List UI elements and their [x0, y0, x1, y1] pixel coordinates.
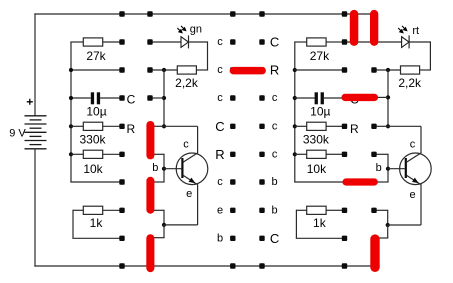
node label C mid-right row8 [270, 231, 279, 246]
pad top rail left-a [119, 11, 124, 16]
wire row5 pad to base corner [376, 154, 388, 169]
svg-text:R: R [270, 63, 279, 78]
wire base Q1 [164, 168, 181, 170]
label 10k right [307, 162, 327, 176]
pad row7 col-a left [119, 208, 124, 213]
label C left half [127, 93, 136, 107]
wire 27k-left to pad [103, 41, 120, 43]
svg-text:10µ: 10µ [310, 105, 330, 119]
pad row2 mid-a [230, 67, 235, 72]
pad row6 col-a left [119, 179, 124, 184]
svg-text:C: C [270, 231, 279, 246]
svg-text:c: c [217, 176, 223, 188]
svg-text:27k: 27k [310, 49, 330, 63]
label 1k right [313, 216, 327, 230]
wire 27k-right lead [294, 41, 307, 43]
pad bottom rail mid-a [230, 263, 235, 268]
label b Q2 [376, 162, 382, 174]
wire row1 under jumpers to LED rt [347, 41, 402, 43]
pad row5 mid-a [230, 152, 235, 157]
svg-text:b: b [272, 204, 278, 216]
svg-text:R: R [215, 147, 224, 162]
wire 1k to pad right [326, 209, 342, 211]
wire pad row3 to junction [152, 97, 164, 99]
wire bus to 330k right [295, 125, 307, 127]
label gn [190, 24, 202, 36]
label 27k right [310, 49, 330, 63]
wire row6 bar to base corner [150, 169, 164, 183]
resistor 2,2k left [177, 66, 196, 74]
svg-text:c: c [272, 120, 278, 132]
svg-text:b: b [376, 162, 382, 174]
label e Q2 [410, 189, 416, 201]
jumper red left B [146, 177, 154, 214]
label 330k left [79, 133, 106, 147]
svg-text:1k: 1k [90, 216, 104, 230]
resistor 2,2k right [401, 66, 420, 74]
pad row1 mid-a [230, 39, 235, 44]
pad bottom rail left-a [119, 263, 124, 268]
svg-text:c: c [183, 138, 189, 150]
node row3 junction left [162, 96, 166, 100]
wire pad to 2.2k junction [152, 69, 177, 71]
node label c mid-right row4 [272, 120, 278, 132]
wire LED gn to corner [189, 41, 208, 70]
svg-text:c: c [217, 92, 223, 104]
wire 10k to pad [326, 153, 342, 155]
resistor 10k right [307, 150, 326, 158]
svg-text:C: C [215, 119, 224, 134]
label 10u left [86, 105, 106, 119]
capacitor C2 10u plates [315, 92, 324, 104]
wire pad to LED gn [152, 41, 181, 43]
svg-text:330k: 330k [303, 133, 330, 147]
svg-text:c: c [217, 64, 223, 76]
wire 10k to pad [103, 153, 120, 155]
pad row6 mid-a [230, 179, 235, 184]
resistor 330k right [307, 122, 326, 130]
svg-text:e: e [410, 189, 416, 201]
node label b mid-right row7 [272, 204, 278, 216]
node bus row2 right [293, 68, 297, 72]
pad row4 col-a right [342, 124, 347, 129]
wire row7 pad to emitter corner [376, 210, 387, 225]
wire bus to 10k right [295, 153, 307, 155]
transistor Q1 base bar [181, 158, 183, 178]
svg-text:b: b [152, 162, 158, 174]
battery B1 9V cells [25, 116, 47, 149]
node label c mid-left row3 [217, 92, 223, 104]
node junction 2.2k left [162, 68, 166, 72]
node bus row2 left [69, 68, 73, 72]
resistor 1k left [83, 206, 102, 214]
svg-text:10k: 10k [83, 162, 103, 176]
pad row8 col-a left [119, 236, 124, 241]
node base junction Q2 [386, 167, 390, 171]
wire row2 right from bus [295, 69, 342, 71]
capacitor C1 10u plates [91, 92, 100, 104]
wire row8 corner to bar right [374, 225, 388, 238]
pad row4 mid-b [259, 124, 264, 129]
svg-text:b: b [217, 232, 223, 244]
wire bus to 10k [71, 153, 83, 155]
wire 2.2k right to corner [420, 69, 431, 71]
label c Q1 [183, 138, 189, 150]
node row4 junction left [162, 124, 166, 128]
node bus row5 left [69, 152, 73, 156]
jumper red right row6 [342, 178, 378, 185]
wire emitter Q2 run [388, 224, 421, 226]
svg-text:c: c [410, 138, 416, 150]
svg-text:10µ: 10µ [86, 105, 106, 119]
jumper red right bottom [370, 234, 379, 272]
svg-text:C: C [127, 93, 136, 107]
LED D2 cathode bar [408, 35, 410, 48]
svg-text:R: R [350, 122, 359, 136]
wire 27k-left lead [70, 41, 83, 43]
pad bottom rail right-a [342, 263, 347, 268]
label c Q2 [410, 138, 416, 150]
node bus row3 right [293, 96, 297, 100]
pad row4 mid-a [230, 124, 235, 129]
node label C mid-left row4 [215, 119, 224, 134]
wire right bus rail [294, 42, 296, 182]
pad row6 mid-b [259, 179, 264, 184]
label 2,2k left [175, 76, 199, 90]
wire row4 bar to junction [150, 125, 164, 127]
pad row7 col-a right [342, 208, 347, 213]
pad row8 mid-b [259, 236, 264, 241]
node emitter junction Q2 [386, 223, 390, 227]
svg-text:R: R [126, 122, 135, 136]
node label R mid-left row5 [215, 147, 224, 162]
label R left half [126, 122, 135, 136]
jumper red right row3 [341, 94, 378, 101]
jumper red left A [146, 121, 154, 159]
wire battery negative lead [34, 149, 36, 267]
jumper red left C [146, 234, 154, 272]
label R right half [350, 122, 359, 136]
transistor Q1 collector [183, 126, 198, 162]
pad row5 col-a right [342, 152, 347, 157]
pad row7 col-b right [371, 208, 376, 213]
node bus row3 left [69, 96, 73, 100]
pad row5 col-b right [371, 152, 376, 157]
label 330k right [303, 133, 330, 147]
wire 330k to pad [326, 125, 342, 127]
wire LED rt to corner [409, 41, 430, 70]
pad row8 col-a right [342, 236, 347, 241]
label b Q1 [152, 162, 158, 174]
pad row1 col-b left [147, 39, 152, 44]
svg-text:1k: 1k [313, 216, 327, 230]
transistor Q1 emitter [183, 175, 198, 225]
wire 0V bottom rail [34, 265, 379, 267]
pad row2 mid-b [259, 67, 264, 72]
pad row1 col-a left [119, 39, 124, 44]
pad row7 mid-b [259, 208, 264, 213]
pad row3 mid-a [230, 95, 235, 100]
resistor 27k left [83, 38, 102, 46]
node emitter junction Q1 [162, 223, 166, 227]
wire bus to C1 [71, 97, 91, 99]
wire emitter Q1 run [164, 224, 198, 226]
node row3 junction right [386, 95, 390, 99]
label 10u right [310, 105, 330, 119]
battery label 9 V [9, 128, 26, 140]
node bus row5 right [293, 152, 297, 156]
wire row4 pad to junction [376, 125, 388, 127]
svg-text:c: c [272, 148, 278, 160]
LED D1 green triangle [181, 37, 188, 48]
node junction 2.2k right [386, 68, 390, 72]
wire 1k left loop [72, 210, 119, 239]
LED D2 light arrows [398, 26, 407, 33]
node label c mid-left row2 [217, 64, 223, 76]
wire base Q2 [388, 168, 405, 170]
pad row4 col-a left [119, 124, 124, 129]
svg-text:gn: gn [190, 24, 202, 36]
pad row2 col-a right [342, 67, 347, 72]
node label e mid-left row7 [217, 204, 223, 216]
transistor Q2 base bar [405, 158, 407, 178]
svg-text:e: e [217, 204, 223, 216]
pad row3 col-a left [119, 95, 124, 100]
pad bottom rail mid-b [259, 263, 264, 268]
wire row4 to collector Q2 [388, 125, 421, 127]
svg-text:9 V: 9 V [9, 128, 26, 140]
resistor 10k left [83, 150, 102, 158]
pad row5 mid-b [259, 152, 264, 157]
pad row1 col-a right [342, 39, 347, 44]
transistor Q1 circle [176, 153, 208, 185]
pad top rail left-b [147, 11, 152, 16]
pad row2 col-b right [371, 67, 376, 72]
wire jumper to junction row3 [376, 96, 388, 98]
wire left bus rail [70, 42, 72, 182]
pad top rail mid-b [259, 11, 264, 16]
label rt [412, 25, 419, 37]
battery plus sign [27, 99, 33, 105]
pad top rail mid-a [230, 11, 235, 16]
wire pad to 2.2k junction right [376, 69, 400, 71]
node label b mid-right row6 [272, 176, 278, 188]
transistor Q2 emitter [406, 175, 421, 225]
wire 1k right loop [296, 210, 342, 239]
wire 2.2k to corner [196, 69, 208, 71]
LED D2 red triangle [402, 37, 409, 48]
svg-text:b: b [272, 176, 278, 188]
wire left junction column [163, 70, 165, 126]
node bus row4 right [293, 124, 297, 128]
svg-text:2,2k: 2,2k [398, 76, 422, 90]
pad row3 col-b left [147, 95, 152, 100]
jumper red top 2 [370, 10, 378, 46]
transistor Q2 circle [400, 153, 432, 185]
node base junction Q1 [162, 167, 166, 171]
wire C2 to jumper [324, 97, 344, 99]
label 2,2k right [398, 76, 422, 90]
wire battery positive lead [34, 13, 36, 116]
wire bus corner row6 [70, 180, 119, 183]
svg-text:c: c [272, 92, 278, 104]
node label c mid-right row5 [272, 148, 278, 160]
svg-text:27k: 27k [86, 49, 106, 63]
LED D1 light arrows [177, 26, 185, 33]
jumper red top 1 [350, 10, 359, 46]
wire 1k to pad [103, 209, 120, 211]
pad row1 mid-b [259, 39, 264, 44]
wire bus to 330k [71, 125, 83, 127]
resistor 330k left [83, 122, 102, 130]
label 10k left [83, 162, 103, 176]
svg-text:c: c [217, 36, 223, 48]
wire row8 corner to bar [152, 225, 165, 238]
node label R mid-right row2 [270, 63, 279, 78]
node label C mid-right row1 [270, 35, 279, 50]
resistor 27k right [307, 38, 326, 46]
pad row2 col-b left [147, 67, 152, 72]
node label b mid-left row8 [217, 232, 223, 244]
label 1k left [90, 216, 104, 230]
pad top rail right-a [342, 11, 347, 16]
wire right junction column [387, 70, 389, 126]
wire row2 left from bus [71, 69, 120, 71]
wire row4 to collector Q1 [164, 125, 198, 127]
pad row5 col-a left [119, 152, 124, 157]
wire +9V top rail [34, 13, 376, 15]
node row4 junction right [386, 124, 390, 128]
svg-text:C: C [270, 35, 279, 50]
transistor Q2 collector [406, 126, 421, 162]
label e Q1 [186, 188, 192, 200]
wire C1 to pad [100, 97, 120, 99]
wire 27k-right to pad [326, 41, 342, 43]
node label c mid-left row1 [217, 36, 223, 48]
svg-text:2,2k: 2,2k [175, 76, 199, 90]
svg-text:e: e [186, 188, 192, 200]
svg-text:330k: 330k [79, 133, 106, 147]
label C right half [350, 93, 359, 107]
pad row3 mid-b [259, 95, 264, 100]
pad row4 col-b right [371, 124, 376, 129]
node label c mid-left row6 [217, 176, 223, 188]
jumper red mid row2 [230, 67, 266, 75]
wire 330k to pad [103, 125, 120, 127]
wire row6 bar to base corner right [376, 169, 388, 183]
wire bus corner row6 right [294, 180, 344, 183]
wire bus to C2 [295, 97, 315, 99]
svg-text:rt: rt [412, 25, 419, 37]
resistor 1k right [307, 206, 326, 214]
pad row7 mid-a [230, 208, 235, 213]
pad row8 mid-a [230, 236, 235, 241]
node label c mid-right row3 [272, 92, 278, 104]
node bus row4 left [69, 124, 73, 128]
svg-text:10k: 10k [307, 162, 327, 176]
wire row7 bar to emitter corner [150, 210, 164, 225]
LED D1 cathode bar [188, 35, 190, 48]
label 27k left [86, 49, 106, 63]
wire row5 bar to base corner [150, 154, 164, 169]
pad row2 col-a left [119, 67, 124, 72]
